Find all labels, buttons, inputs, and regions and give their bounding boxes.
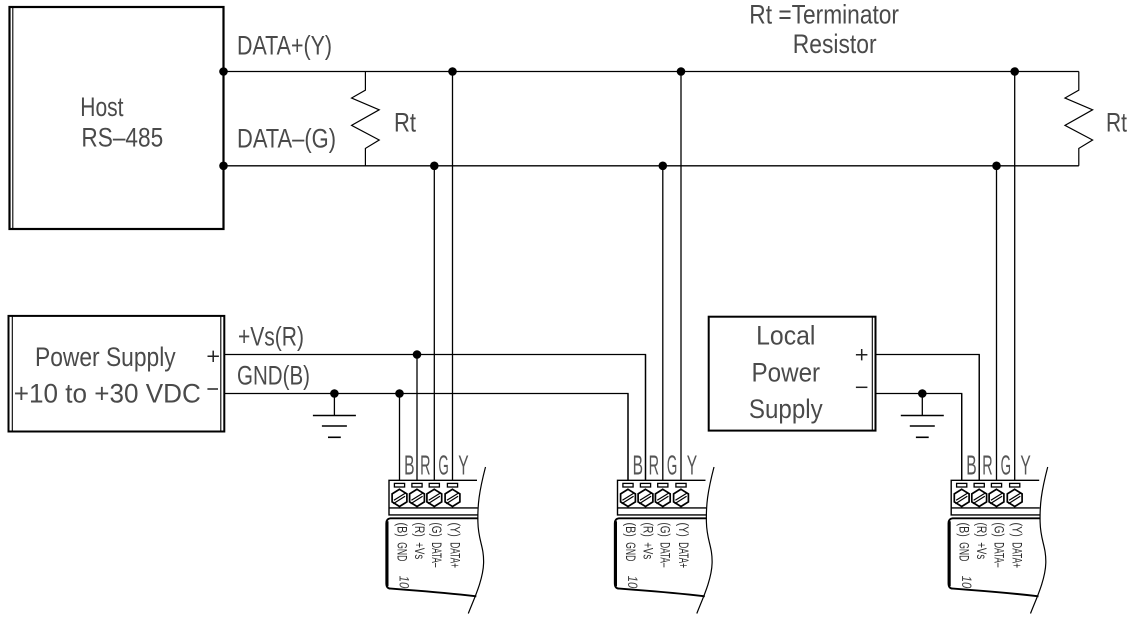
svg-text:10: 10 — [397, 576, 412, 589]
svg-text:(G): (G) — [657, 523, 673, 537]
module 3 pin label Y — [1009, 523, 1025, 569]
module 2 pin label R — [639, 523, 655, 560]
module 2 wire R — [645, 355, 647, 481]
module 1 torn edge curve — [468, 467, 485, 614]
module 3 torn edge curve — [1031, 467, 1048, 614]
svg-text:Rt: Rt — [1106, 108, 1127, 138]
svg-text:(Y): (Y) — [675, 523, 691, 537]
module 3 pin label R — [973, 523, 989, 560]
module 1 wire R — [416, 355, 418, 481]
svg-text:Y: Y — [458, 450, 469, 481]
module 2 labels B R G Y — [633, 450, 698, 481]
svg-text:GND(B): GND(B) — [237, 361, 310, 391]
svg-text:Rt: Rt — [394, 108, 416, 138]
module 1 screw terminal 3 — [427, 489, 442, 508]
svg-text:G: G — [667, 450, 677, 481]
minus terminal — [207, 388, 218, 390]
svg-text:R: R — [649, 450, 659, 481]
svg-text:(B): (B) — [393, 523, 409, 537]
svg-text:GND: GND — [956, 542, 972, 561]
module 1 pin label R — [411, 523, 427, 560]
svg-text:B: B — [404, 450, 414, 481]
svg-text:+Vs: +Vs — [973, 542, 989, 559]
svg-text:R: R — [982, 450, 992, 481]
ground symbol right — [901, 394, 944, 438]
svg-text:Rt =Terminator: Rt =Terminator — [749, 0, 899, 30]
svg-text:DATA+: DATA+ — [446, 542, 462, 568]
module 2 wire G — [662, 166, 664, 481]
module 3 terminal block — [951, 480, 1040, 515]
module 3 screw terminal 1 — [954, 489, 969, 508]
local power supply box — [709, 317, 876, 431]
svg-text:B: B — [633, 450, 643, 481]
module 1 wire B — [399, 394, 401, 481]
module 3 wire G — [996, 166, 998, 481]
module 3 labels B R G Y — [966, 450, 1031, 481]
module 1 screw terminal 2 — [410, 489, 425, 508]
svg-text:(B): (B) — [956, 523, 972, 537]
module 2 wire Y — [680, 72, 682, 481]
module 1 body — [386, 518, 478, 596]
svg-text:+Vs(R): +Vs(R) — [238, 322, 304, 352]
svg-text:(Y): (Y) — [1009, 523, 1025, 537]
host RS-485 box — [10, 7, 224, 229]
module 2 screw terminal 3 — [655, 489, 670, 508]
svg-text:DATA–: DATA– — [990, 542, 1006, 567]
module 3 wire Y — [1014, 72, 1016, 481]
module 2 wire B — [627, 394, 629, 481]
module 3 pin label B — [956, 523, 972, 562]
resistor Rt left terminator — [352, 72, 380, 166]
plus terminal — [856, 349, 868, 360]
svg-text:Y: Y — [1020, 450, 1031, 481]
svg-text:(B): (B) — [622, 523, 638, 537]
wire DATA+ bus — [224, 71, 1079, 73]
module 1 terminal block — [389, 480, 478, 515]
svg-text:+10 to +30 VDC: +10 to +30 VDC — [14, 379, 201, 409]
module 3 wire B — [961, 394, 963, 481]
svg-text:G: G — [1001, 450, 1011, 481]
resistor Rt right terminator — [1065, 72, 1093, 166]
module 2 pin label Y — [675, 523, 691, 569]
svg-text:Resistor: Resistor — [793, 29, 877, 59]
svg-text:DATA+: DATA+ — [675, 542, 691, 568]
svg-text:(Y): (Y) — [446, 523, 462, 537]
svg-text:GND: GND — [393, 542, 409, 561]
module 2 screw terminal 1 — [621, 489, 636, 508]
power supply box — [9, 316, 225, 432]
wire local - line — [876, 394, 962, 481]
module 2 terminal block — [618, 480, 707, 515]
svg-text:B: B — [966, 450, 976, 481]
svg-text:(G): (G) — [428, 523, 444, 537]
svg-text:(R): (R) — [639, 523, 655, 537]
wire +Vs(R) line — [224, 355, 645, 481]
module 3 pin label G — [990, 523, 1006, 568]
ground symbol left — [313, 394, 356, 438]
svg-text:Power: Power — [752, 358, 821, 388]
svg-text:DATA–(G): DATA–(G) — [237, 124, 336, 154]
svg-text:Host: Host — [80, 92, 124, 122]
wire DATA- bus — [224, 165, 1079, 167]
svg-text:Y: Y — [687, 450, 698, 481]
module 3 wire R — [978, 355, 980, 481]
svg-text:DATA–: DATA– — [428, 542, 444, 567]
svg-text:Supply: Supply — [749, 394, 823, 424]
svg-text:DATA+(Y): DATA+(Y) — [237, 31, 332, 61]
svg-text:(G): (G) — [990, 523, 1006, 537]
module 2 body — [615, 518, 707, 596]
module 1 labels B R G Y — [404, 450, 469, 481]
module 2 torn edge curve — [697, 467, 714, 614]
minus terminal — [856, 386, 868, 388]
module 1 wire Y — [452, 72, 454, 481]
module 3 body — [949, 518, 1041, 596]
svg-text:Power Supply: Power Supply — [35, 342, 176, 372]
module 3 screw terminal 3 — [989, 489, 1004, 508]
module 2 screw terminal 2 — [638, 489, 653, 508]
svg-text:RS–485: RS–485 — [81, 123, 163, 153]
svg-text:(R): (R) — [973, 523, 989, 537]
module 1 screw terminal 4 — [445, 489, 460, 508]
svg-text:G: G — [438, 450, 448, 481]
svg-text:R: R — [420, 450, 430, 481]
module 3 screw terminal 2 — [972, 489, 987, 508]
module 2 pin label G — [657, 523, 673, 568]
svg-text:+Vs: +Vs — [639, 542, 655, 559]
svg-text:+Vs: +Vs — [411, 542, 427, 559]
svg-text:DATA+: DATA+ — [1009, 542, 1025, 568]
module 2 pin label B — [622, 523, 638, 562]
module 1 screw terminal 1 — [392, 489, 407, 508]
svg-text:Local: Local — [756, 320, 815, 350]
module 1 pin label Y — [446, 523, 462, 569]
module 3 screw terminal 4 — [1007, 489, 1022, 508]
svg-text:GND: GND — [622, 542, 638, 561]
module 1 pin label B — [393, 523, 409, 562]
module 1 pin label G — [428, 523, 444, 568]
svg-text:10: 10 — [625, 576, 640, 589]
module 2 screw terminal 4 — [674, 489, 689, 508]
svg-text:(R): (R) — [411, 523, 427, 537]
label Rt =Terminator Resistor — [749, 0, 899, 59]
plus terminal — [208, 351, 219, 362]
wire local + line — [876, 355, 980, 481]
svg-text:10: 10 — [959, 576, 974, 589]
svg-text:DATA–: DATA– — [657, 542, 673, 567]
wire GND(B) line — [224, 394, 628, 481]
module 1 wire G — [433, 166, 435, 481]
